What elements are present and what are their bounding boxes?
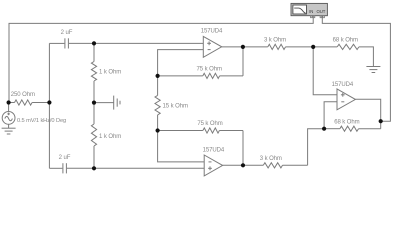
wire: bottom row to op-amp U2 + input [67, 167, 204, 169]
svg-text:250 Ohm: 250 Ohm [11, 92, 35, 98]
resistor 68 k Ohm (upper) [337, 44, 359, 49]
ground (below source V1) [2, 128, 16, 134]
wire: feedback vertical to U1 output [242, 47, 244, 76]
svg-text:3 k Ohm: 3 k Ohm [260, 156, 282, 162]
svg-text:2 uF: 2 uF [61, 30, 73, 36]
svg-text:1 k Ohm: 1 k Ohm [99, 70, 121, 76]
svg-text:15 k Ohm: 15 k Ohm [163, 103, 188, 109]
wire: top capacitor row (left part) [49, 42, 64, 44]
resistor 75 k Ohm (feedback U2) [158, 128, 243, 133]
wire: 3k lower to corner [283, 164, 308, 166]
wire: U2 output row [223, 164, 264, 166]
svg-text:OUT: OUT [317, 9, 326, 14]
ground (top-right) [366, 67, 380, 73]
op-amp U3 157UD4 (right) [337, 89, 355, 110]
resistor 250 Ohm [9, 100, 50, 105]
wire: 68k to ground corner [359, 47, 374, 67]
svg-text:157UD4: 157UD4 [203, 147, 225, 153]
svg-text:0.5 mV/1 kHz/0 Deg: 0.5 mV/1 kHz/0 Deg [17, 118, 66, 124]
svg-text:2 uF: 2 uF [59, 155, 71, 161]
wire: feedback vertical to U2 output [242, 131, 244, 166]
resistor 68 k Ohm (feedback U3) [324, 126, 381, 131]
svg-text:IN: IN [309, 9, 313, 14]
wire: to 68k row1 [286, 46, 338, 48]
resistor R 1 k Ohm (upper) on middle rail [91, 43, 96, 102]
svg-text:157UD4: 157UD4 [332, 82, 354, 88]
bode plotter instrument [291, 3, 327, 17]
wire: source vertical stub to 250 Ohm row [8, 103, 10, 112]
svg-text:157UD4: 157UD4 [201, 29, 223, 35]
wire: bottom capacitor row (left part) [49, 167, 62, 169]
wire: middle rail to rotated ground [94, 102, 114, 104]
op-amp U1 157UD4 (top) [203, 36, 221, 57]
wire: left vertical rail x=49.5 [48, 43, 50, 168]
svg-text:68 k Ohm: 68 k Ohm [333, 38, 358, 44]
ground (middle, rotated right) [114, 96, 120, 110]
resistor 75 k Ohm (feedback U1) [158, 73, 243, 78]
resistor R 1 k Ohm (lower) on middle rail [91, 103, 96, 169]
svg-text:68 k Ohm: 68 k Ohm [334, 119, 359, 125]
svg-text:1 k Ohm: 1 k Ohm [99, 134, 121, 140]
op-amp U2 157UD4 (bottom) [204, 155, 222, 176]
AC voltage source V1 0.5 mV/1 kHz/0 Deg [2, 112, 15, 129]
wire: bode IN probe net (top-left long wire) [9, 16, 313, 103]
svg-text:3 k Ohm: 3 k Ohm [264, 38, 286, 44]
capacitor C2 2 uF (bottom) [63, 163, 67, 173]
wire: 68k row2 to 3k row2 L-link [308, 129, 325, 166]
wire: dot(313,47) down to U3 + input [313, 47, 337, 95]
wire: U1 output row [222, 46, 268, 48]
wire: U2 - input row [158, 131, 205, 162]
wire: bode OUT net (top-right + right edge) [322, 16, 390, 122]
svg-text:75 k Ohm: 75 k Ohm [197, 121, 222, 127]
wire: U3 output to right drop [355, 99, 380, 128]
capacitor C1 2 uF (top) [65, 38, 69, 48]
resistor 3 k Ohm (lower) [263, 163, 282, 168]
svg-text:75 k Ohm: 75 k Ohm [197, 67, 222, 73]
resistor 15 k Ohm [155, 76, 160, 131]
resistor 3 k Ohm (upper) [268, 44, 286, 49]
wire: U3 - input from feedback node [324, 102, 337, 129]
wire: top row to op-amp U1 + input [69, 42, 203, 44]
wire: U1 - input row [158, 50, 204, 76]
